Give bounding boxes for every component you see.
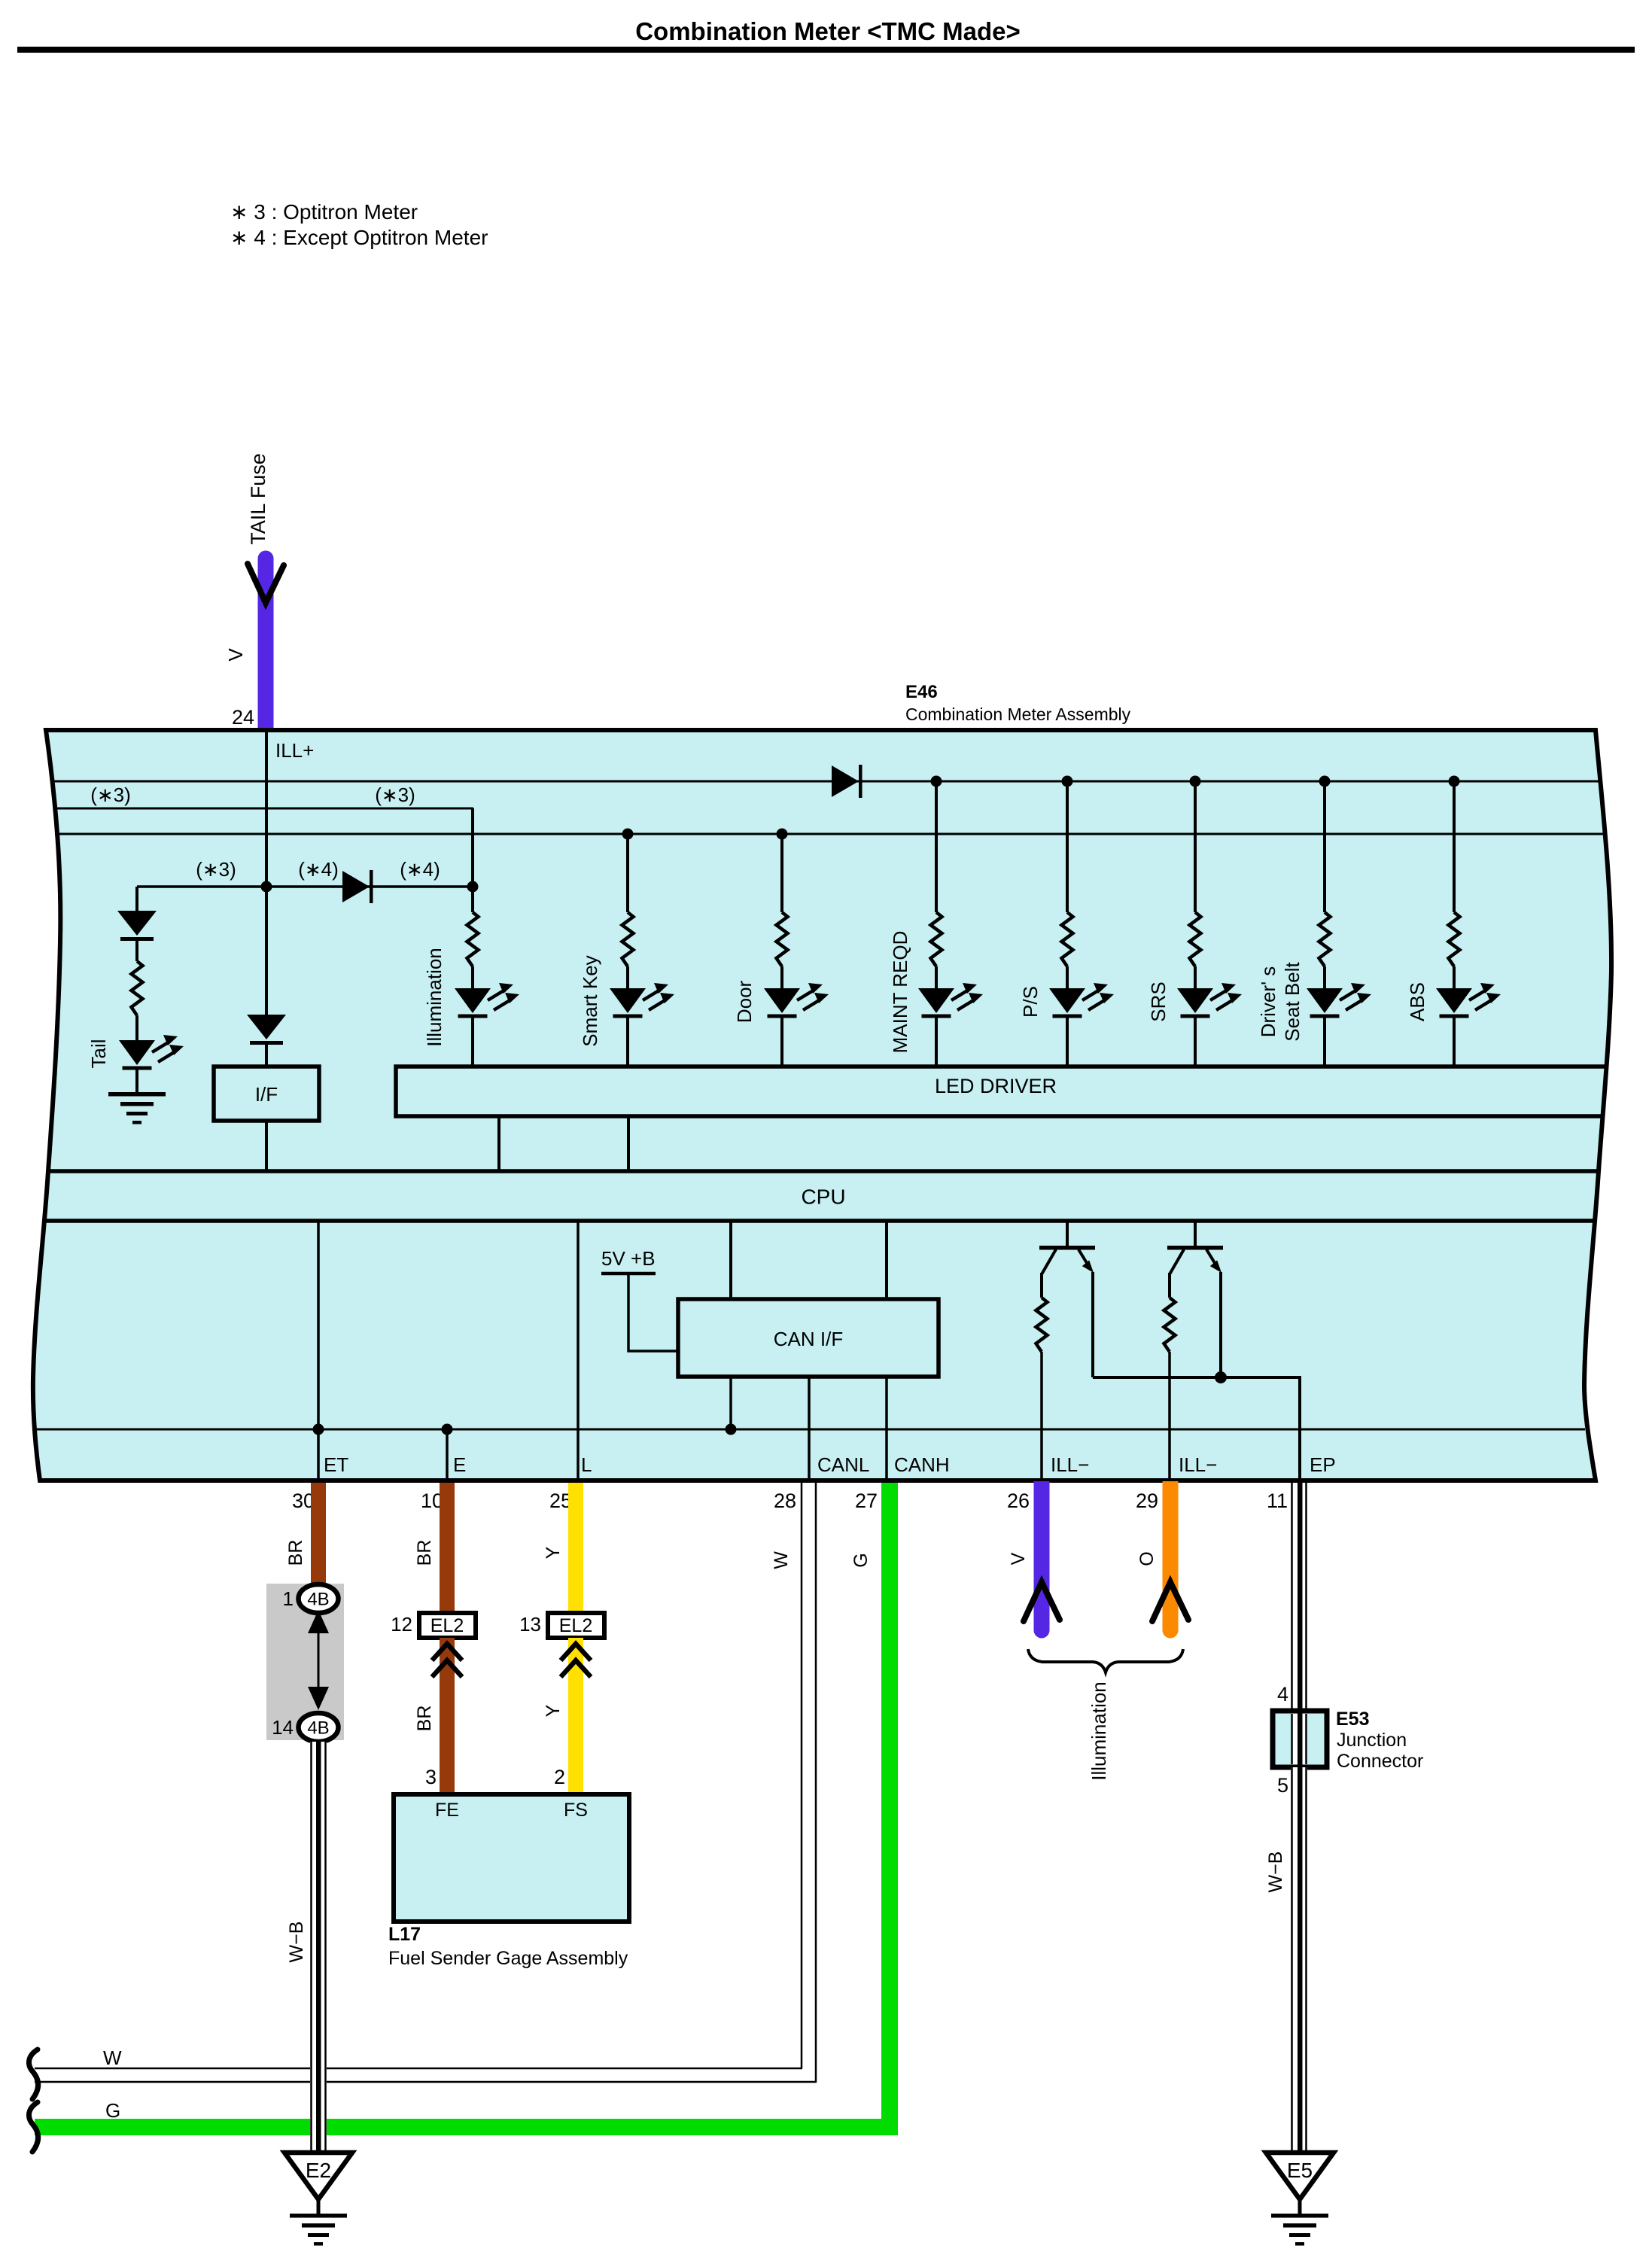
- svg-text:EP: EP: [1310, 1453, 1336, 1476]
- wire Smart Key branch: [626, 834, 629, 912]
- ground E5: [1266, 2153, 1334, 2246]
- resistor R1 (ILL- 26): [1036, 1298, 1048, 1352]
- arrow on O wire: [1152, 1582, 1188, 1621]
- svg-text:Driver' s: Driver' s: [1257, 966, 1279, 1038]
- junction dot ILL+ on D: [261, 881, 272, 893]
- wire ABS branch: [1453, 781, 1456, 912]
- chevron pair below EL2 (13): [561, 1644, 591, 1677]
- ground E2: [284, 2153, 352, 2246]
- wire ET from CPU to pin 30: [317, 1221, 320, 1480]
- header rule: [17, 47, 1635, 53]
- connector 4B shield box: [266, 1584, 344, 1740]
- wire P/S branch: [1066, 781, 1069, 912]
- wire: [135, 1015, 138, 1040]
- wire G pin27 down and left: [35, 1483, 890, 2127]
- svg-text:I/F: I/F: [255, 1083, 278, 1106]
- svg-text:13: 13: [519, 1613, 541, 1636]
- arrow up inside 4B: [308, 1610, 329, 1633]
- svg-text:CANL: CANL: [817, 1453, 869, 1476]
- wire W-B through E53: [1291, 1711, 1307, 1767]
- svg-text:SRS: SRS: [1147, 981, 1170, 1021]
- wire L from CPU to pin 25: [577, 1221, 580, 1480]
- svg-text:E46: E46: [905, 682, 938, 702]
- svg-text:∗ 4 : Except Optitron Meter: ∗ 4 : Except Optitron Meter: [230, 226, 488, 249]
- component E46 combination meter assembly box: [33, 730, 1611, 1480]
- junction dot emitter bus: [1215, 1371, 1227, 1383]
- wire Door branch: [780, 834, 783, 912]
- resistor R2 (ILL- 29): [1164, 1298, 1176, 1352]
- svg-text:27: 27: [855, 1490, 878, 1512]
- branch Door: resistor+LED: [764, 912, 829, 1067]
- svg-text:FE: FE: [435, 1800, 459, 1821]
- branch Illumination: resistor+LED: [455, 912, 519, 1067]
- svg-text:Seat Belt: Seat Belt: [1281, 961, 1304, 1041]
- component L17 Fuel Sender Gage Assembly: [394, 1794, 629, 1922]
- branch line D: [137, 885, 473, 888]
- wire CANL from CAN I/F to pin 28: [808, 1377, 811, 1480]
- svg-text:EL2: EL2: [559, 1615, 592, 1636]
- wire I/F to CPU: [265, 1121, 268, 1171]
- svg-text:BR: BR: [414, 1706, 435, 1732]
- svg-text:Fuel Sender Gage Assembly: Fuel Sender Gage Assembly: [388, 1948, 628, 1969]
- wire R1 to pin 26: [1040, 1352, 1043, 1480]
- svg-text:P/S: P/S: [1019, 986, 1042, 1018]
- brace Illumination: [1028, 1649, 1183, 1672]
- svg-text:(∗3): (∗3): [90, 784, 131, 806]
- svg-text:∗ 3 : Optitron Meter: ∗ 3 : Optitron Meter: [230, 200, 418, 224]
- branch MAINT REQD: resistor+LED: [918, 912, 983, 1067]
- svg-text:MAINT REQD: MAINT REQD: [889, 931, 911, 1054]
- pin row separator line: [35, 1429, 1585, 1431]
- junction dot Seat Belt on bus A: [1319, 776, 1331, 787]
- wire diode to I/F box: [265, 1045, 268, 1067]
- svg-text:LED DRIVER: LED DRIVER: [935, 1075, 1057, 1097]
- junction dot CAN I/F ground: [726, 1424, 737, 1435]
- diode D1 on bus A: [832, 765, 863, 798]
- svg-text:5V +B: 5V +B: [601, 1247, 656, 1270]
- wire W pin28 down and left: [35, 1483, 817, 2082]
- junction dot illumination on D: [467, 881, 479, 893]
- svg-text:2: 2: [554, 1766, 565, 1788]
- junction dot ET: [313, 1424, 324, 1435]
- svg-text:11: 11: [1267, 1490, 1288, 1512]
- wire LED DRIVER to CPU right: [627, 1116, 630, 1171]
- svg-text:CAN I/F: CAN I/F: [774, 1328, 843, 1350]
- bus line A: [53, 781, 1601, 783]
- wire LED DRIVER to CPU left: [497, 1116, 500, 1171]
- wire Tail branch vertical: [135, 887, 138, 911]
- ground Tail: [108, 1092, 166, 1124]
- branch ABS: resistor+LED: [1436, 912, 1501, 1067]
- bus line B: [54, 808, 473, 810]
- svg-text:Smart Key: Smart Key: [579, 955, 601, 1046]
- component LED DRIVER block: [396, 1067, 1605, 1116]
- svg-text:14: 14: [272, 1716, 294, 1739]
- svg-text:28: 28: [774, 1490, 796, 1512]
- branch P/S: resistor+LED: [1049, 912, 1114, 1067]
- svg-text:W: W: [771, 1551, 792, 1569]
- svg-text:EL2: EL2: [430, 1615, 464, 1636]
- wire 5V to CAN I/F: [628, 1274, 678, 1351]
- wire W-B 4B to E2: [310, 1742, 327, 2153]
- arrow into wire: [248, 564, 284, 603]
- svg-text:V: V: [1008, 1552, 1029, 1565]
- svg-text:4: 4: [1277, 1683, 1288, 1706]
- wire BR pin30 to 4B: [311, 1483, 326, 1585]
- resistor Tail branch: [132, 961, 143, 1015]
- connector EL2 (12): [419, 1613, 476, 1638]
- svg-text:26: 26: [1007, 1490, 1030, 1512]
- wire W-B pin11 to E53: [1291, 1483, 1307, 1711]
- svg-text:24: 24: [232, 706, 254, 729]
- svg-text:(∗3): (∗3): [196, 858, 236, 881]
- wire R2 to pin 29: [1168, 1352, 1171, 1480]
- connector EL2 (13): [548, 1613, 604, 1638]
- transistor Q2: [1167, 1221, 1223, 1377]
- wire BR pin10 to EL2: [440, 1483, 455, 1613]
- svg-text:Junction: Junction: [1337, 1730, 1407, 1751]
- svg-text:W−B: W−B: [286, 1922, 307, 1963]
- svg-text:FS: FS: [564, 1800, 588, 1821]
- svg-text:(∗3): (∗3): [375, 784, 415, 806]
- component CPU band: [48, 1169, 1599, 1173]
- arrow on V wire: [1024, 1582, 1060, 1621]
- branch Seat Belt: resistor+LED: [1307, 912, 1371, 1067]
- chevron pair below EL2 (12): [432, 1644, 462, 1677]
- component CAN I/F block: [678, 1299, 939, 1377]
- svg-text:BR: BR: [285, 1540, 306, 1566]
- connector E53 junction connector: [1273, 1711, 1327, 1767]
- junction dot E: [442, 1424, 453, 1435]
- svg-text:ABS: ABS: [1406, 982, 1428, 1021]
- wire ILL+ vertical from pin 24: [265, 730, 268, 1015]
- arrow down inside 4B: [308, 1687, 329, 1710]
- junction dot SRS on bus A: [1190, 776, 1201, 787]
- wire emitter bus to EP: [1093, 1377, 1300, 1480]
- bus line C: [55, 833, 1605, 835]
- svg-text:29: 29: [1136, 1490, 1158, 1512]
- svg-text:G: G: [105, 2099, 120, 2122]
- wire CPU to CAN I/F left: [729, 1221, 732, 1299]
- svg-text:CANH: CANH: [894, 1453, 950, 1476]
- svg-text:Combination Meter Assembly: Combination Meter Assembly: [905, 704, 1131, 724]
- wire E from bus to pin 10: [446, 1429, 449, 1480]
- wire Y pin25 to EL2: [568, 1483, 583, 1613]
- svg-text:Illumination: Illumination: [423, 948, 446, 1047]
- svg-text:ILL−: ILL−: [1179, 1453, 1217, 1476]
- svg-text:TAIL Fuse: TAIL Fuse: [247, 453, 269, 545]
- wire O pin29: [1163, 1481, 1179, 1630]
- svg-text:ILL−: ILL−: [1051, 1453, 1089, 1476]
- svg-text:1: 1: [283, 1587, 294, 1610]
- svg-text:Combination Meter <TMC Made>: Combination Meter <TMC Made>: [635, 17, 1021, 45]
- svg-text:3: 3: [425, 1766, 437, 1788]
- wire BR EL2 to L17 pin3: [440, 1638, 455, 1794]
- branch Smart Key: resistor+LED: [610, 912, 674, 1067]
- wire W-B E53 to E5: [1291, 1767, 1307, 2153]
- node 5V +B bar: [601, 1272, 656, 1276]
- svg-text:5: 5: [1277, 1774, 1288, 1797]
- svg-text:Door: Door: [733, 980, 756, 1023]
- branch SRS: resistor+LED: [1177, 912, 1242, 1067]
- wire CANH from CAN I/F to pin 27: [885, 1377, 888, 1480]
- wire from bus B down to illumination branch: [471, 808, 474, 912]
- svg-text:Illumination: Illumination: [1088, 1681, 1110, 1781]
- svg-text:G: G: [850, 1553, 872, 1567]
- LED Tail: [119, 1035, 184, 1070]
- diode D2 on branch line D: [342, 870, 373, 903]
- junction dot MAINT REQD on bus A: [931, 776, 942, 787]
- svg-text:CPU: CPU: [801, 1185, 845, 1209]
- wire: [135, 1070, 138, 1092]
- svg-text:Y: Y: [543, 1546, 564, 1559]
- svg-text:Tail: Tail: [87, 1039, 110, 1068]
- svg-text:L17: L17: [388, 1924, 421, 1945]
- wire MAINT REQD branch: [935, 781, 938, 912]
- junction dot ABS on bus A: [1449, 776, 1460, 787]
- wire Seat Belt branch: [1323, 781, 1326, 912]
- wire V pin26: [1034, 1481, 1050, 1630]
- svg-text:W−B: W−B: [1265, 1852, 1286, 1893]
- svg-text:E: E: [453, 1453, 466, 1476]
- wire: [135, 941, 138, 961]
- transistor Q1: [1039, 1221, 1095, 1377]
- svg-text:E53: E53: [1336, 1709, 1369, 1730]
- svg-text:(∗4): (∗4): [400, 858, 440, 881]
- svg-text:Y: Y: [543, 1704, 564, 1717]
- junction dot Door on bus C: [777, 829, 788, 840]
- svg-text:E2: E2: [306, 2159, 331, 2182]
- wire CAN I/F to ground bus: [729, 1377, 732, 1429]
- junction dot Smart Key on bus C: [622, 829, 634, 840]
- wire SRS branch: [1194, 781, 1197, 912]
- svg-text:BR: BR: [414, 1540, 435, 1566]
- brace G left: [29, 2102, 38, 2152]
- junction dot P/S on bus A: [1062, 776, 1073, 787]
- brace W left: [29, 2050, 38, 2099]
- svg-text:Connector: Connector: [1337, 1751, 1423, 1772]
- svg-text:(∗4): (∗4): [298, 858, 339, 881]
- wire V from TAIL fuse to pin 24: [258, 558, 274, 732]
- svg-text:E5: E5: [1287, 2159, 1313, 2182]
- svg-text:ILL+: ILL+: [275, 739, 314, 762]
- wire Y EL2 to L17 pin2: [568, 1638, 583, 1794]
- svg-text:ET: ET: [324, 1453, 348, 1476]
- svg-text:L: L: [581, 1453, 592, 1476]
- op-amp I/F block: [214, 1067, 319, 1121]
- svg-text:V: V: [224, 648, 247, 662]
- svg-text:O: O: [1136, 1551, 1158, 1566]
- connector 4B pin 1: [299, 1584, 339, 1613]
- diode D3 Tail branch: [117, 911, 157, 941]
- diode D4 above I/F: [247, 1015, 286, 1045]
- connector 4B pin 14: [299, 1713, 339, 1742]
- svg-text:W: W: [103, 2047, 122, 2069]
- svg-text:12: 12: [391, 1613, 412, 1636]
- wire CPU to CAN I/F right: [885, 1221, 888, 1299]
